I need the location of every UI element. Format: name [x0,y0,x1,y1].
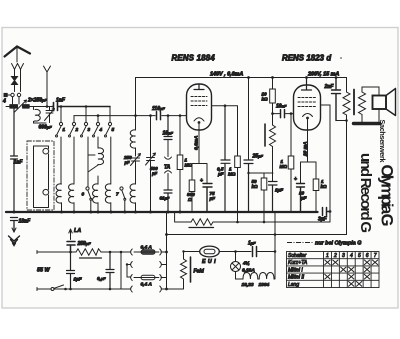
switch 5 [105,122,112,137]
wire antenna row dots [60,105,88,108]
secondary loop [362,87,379,123]
svg-text:2: 2 [75,127,79,132]
detector resistor with bar [265,114,276,181]
HT rail [136,77,347,79]
switch 3 [81,122,88,137]
svg-text:MΩ: MΩ [185,163,193,168]
dropper slider bar [189,227,214,229]
svg-text:1nF: 1nF [14,160,24,166]
fuse 0.4A top [134,250,167,254]
svg-text:Ω: Ω [187,197,192,202]
connector arcs row3 [131,275,162,281]
svg-text:1µF: 1µF [275,188,283,193]
tube U2 cathode [303,114,313,117]
wire switch feeders [61,107,110,123]
capacitor 10uF electrolytic [297,184,305,213]
ground bus [6,211,318,213]
svg-text:1: 1 [63,127,66,132]
svg-text:und Record G: und Record G [357,153,374,233]
trimmer capacitor 2x250pF [6,100,52,112]
svg-text:4V,: 4V, [242,261,250,267]
cathode box node [301,162,317,183]
antenna A1 [5,47,31,63]
resistor 1M grid2 [288,112,294,212]
wire U2 anode [321,105,331,212]
svg-text:Feld: Feld [194,269,205,275]
svg-text:µF: µF [217,172,224,177]
wire cathode RC node [192,164,207,184]
wire U1 anode [212,106,238,156]
table header digits [326,253,377,259]
svg-text:+: + [294,177,297,183]
capacitor 1uF avc [269,182,278,213]
svg-text:Mittel II: Mittel II [288,275,305,281]
wire coil tap link [88,155,98,186]
mains line 2 [37,288,131,290]
dial lamp [231,252,241,280]
wire screen column [248,78,250,160]
nur bei Olympia G dash-dot [287,242,313,244]
capacitor 1nF series antenna [52,103,110,111]
svg-text:6: 6 [82,192,85,197]
svg-text:Olympia G: Olympia G [378,165,396,227]
svg-text:0,µF: 0,µF [97,276,106,281]
capacitor 10nF coupling [281,110,285,118]
antenna coil L1 [34,107,47,124]
svg-text:1884: 1884 [259,282,270,288]
svg-text:TA: TA [164,164,171,170]
svg-text:+: + [200,178,203,184]
coil band L6 [130,184,135,212]
svg-text:Schalter: Schalter [288,253,307,259]
svg-text:1nF: 1nF [56,98,66,104]
connector arcs row4 [131,286,162,292]
svg-text:kΩ: kΩ [262,97,269,102]
svg-text:pF: pF [151,171,158,176]
transformer secondary [359,92,366,115]
svg-text:RENS 1884: RENS 1884 [172,54,216,63]
coil band L5 [105,184,110,212]
tube U1 RENS1884 envelope [187,84,212,130]
antenna plug hooks [12,64,24,74]
tube U1 top cap [194,84,204,90]
svg-text:140V , 0,6mA: 140V , 0,6mA [210,72,243,78]
switch 6 [86,187,92,212]
wire avc link [249,172,274,174]
voice coil box [373,96,387,110]
capacitor 1nF frame [11,109,18,213]
svg-text:E U I: E U I [202,259,216,265]
table row labels [288,253,308,288]
capacitor 1uF lamp [253,247,257,257]
svg-text:5: 5 [358,253,361,259]
TA jack [165,140,172,190]
svg-text:3: 3 [88,127,91,132]
resistor 800ohm [189,180,195,192]
svg-text:Kurz+TA: Kurz+TA [288,260,308,266]
rail junction dots [247,76,337,79]
capacitor 10nF shunt [164,116,172,140]
switch 2 [69,122,76,137]
variable capacitor 600pF [45,107,55,123]
table X marks [325,260,379,287]
fuse 0.4A bottom [127,275,167,279]
capacitor 250pF mains [67,242,75,253]
junction dots grid rail [97,114,182,117]
coil band L4 [93,176,98,212]
svg-text:2: 2 [333,253,337,259]
LA arrow [69,229,72,240]
variable capacitor 500pF [146,116,156,212]
ground symbol [9,228,20,246]
svg-text:7: 7 [374,253,377,259]
resistor 1M anode [235,156,241,168]
capacitor 0.5uF [221,106,230,212]
svg-text:RENS 1823 d: RENS 1823 d [282,54,331,63]
wire heater supply y236 [167,234,347,236]
svg-text:18nF: 18nF [19,219,32,225]
svg-text:Lang: Lang [288,282,299,288]
coil osc [130,130,135,156]
wire U1 cathode down [198,124,200,164]
svg-text:0,4 A: 0,4 A [141,282,153,288]
svg-text:3: 3 [342,253,345,259]
coil band L2 [56,184,61,212]
tube U2 RENS1823d envelope [294,85,321,130]
speaker horn [386,89,396,116]
switch 7 [120,187,126,212]
connector arcs row1 [131,249,162,255]
mains switch [51,288,54,291]
switch 1 [56,122,63,137]
field winding [167,252,187,290]
resistor 10k [270,78,276,114]
wire rectifier row [184,251,276,253]
tube U1 cathode [194,118,204,121]
svg-text:200V, 15 mA: 200V, 15 mA [307,72,339,78]
shield box dashed [27,141,54,210]
svg-text:1µF: 1µF [74,277,82,282]
svg-text:pF: pF [124,160,131,165]
svg-text:Sachsenwerk: Sachsenwerk [378,120,387,163]
capacitor 2nF [332,78,341,121]
capacitor 1uF mains [67,252,75,289]
plug column left [120,252,122,289]
mains line 1 [37,251,131,253]
coil MW upper [98,148,104,165]
wire x275 [274,212,276,252]
svg-text:LA: LA [74,228,81,234]
wire switch to coil verticals [61,137,111,186]
svg-text:kΩ: kΩ [252,184,259,189]
svg-text:MΩ: MΩ [228,172,236,177]
capacitor 75uF electrolytic [203,184,212,213]
mains resistor zigzag [76,249,101,255]
svg-text:MΩ: MΩ [280,164,288,169]
svg-text:4: 4 [99,127,103,132]
capacitor 3uF [323,208,331,216]
svg-text:Mittel I: Mittel I [288,267,303,273]
tube U2 top cap [302,78,312,91]
svg-text:6: 6 [366,253,369,259]
terminal circles [4,93,21,104]
svg-text:7: 7 [116,192,119,197]
tube U2 grids dashed [298,98,316,107]
wire osc column [135,78,137,131]
rectifier EUI [200,246,220,257]
mains resistor bar [80,257,102,259]
svg-text:4: 4 [350,253,353,259]
bus junction dots [13,211,182,214]
svg-text:kΩ: kΩ [321,184,328,189]
wire U2 grid [273,113,294,115]
trimmer 250pF [131,154,141,185]
frame antenna [34,146,49,208]
svg-text:2nF: 2nF [324,84,335,90]
capacitor 0.1uF [164,190,172,212]
wire y222 line [175,212,330,222]
svg-text:55 W: 55 W [37,268,50,274]
capacitor 18nF [11,218,18,233]
svg-text:1: 1 [326,253,329,259]
capacitor 0.1uF mains [106,252,114,289]
svg-text:5: 5 [112,127,115,132]
speaker field resistor [343,78,350,121]
wire 2nF bottom link [336,121,347,235]
wire grid rail [74,115,187,117]
field core bar [190,257,192,282]
svg-text:18,23: 18,23 [242,282,254,288]
svg-text:01µF: 01µF [160,196,170,201]
heater humps [236,252,276,280]
switch table [287,252,380,288]
svg-text:µF: µF [209,196,216,201]
resistor 1M grid [177,116,183,212]
antenna 2 hook [44,66,51,108]
y222 dots [236,210,331,223]
transformer core [353,90,355,115]
svg-text:µF: µF [300,196,307,201]
capacitor 110pF series [157,112,161,120]
svg-text:0,4 A: 0,4 A [141,245,153,251]
resistor 1k [313,179,319,191]
resistor 50k [261,173,267,222]
coil band L3 [69,184,74,212]
switch 4 [93,122,100,137]
svg-text:4: 4 [2,99,6,105]
dropper resistor zigzag [191,219,213,225]
transformer bottom bar [354,122,380,125]
connector arcs row2 [131,262,162,268]
svg-text:nur bei Olympia G: nur bei Olympia G [315,241,362,247]
tube U1 grids dashed [191,97,207,106]
capacitor 25pF [244,160,253,212]
wire U2 cathode [307,120,309,163]
lightning arrester [12,74,21,92]
wire power column x166 [166,212,168,289]
